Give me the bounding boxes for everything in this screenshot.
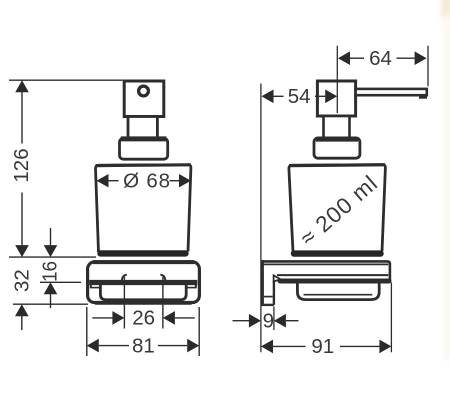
- glass bottom in holder side: [297, 284, 379, 300]
- svg-text:91: 91: [311, 335, 334, 358]
- svg-text:16: 16: [39, 261, 62, 282]
- bracket shelf side: [262, 261, 390, 280]
- wall plate side: [261, 260, 274, 305]
- extension lines right view: [261, 46, 428, 353]
- holder rounded body front: [88, 262, 200, 303]
- pump head hole: [139, 86, 149, 96]
- dimension 91: [261, 335, 391, 358]
- dimension 126: [10, 80, 33, 257]
- dimension 26: [92, 307, 195, 330]
- pump head box side: [317, 81, 355, 116]
- dimension 32: [10, 269, 33, 330]
- glass body front: [95, 165, 190, 252]
- extension lines left view: [9, 80, 199, 356]
- glass body bottom thick band side: [294, 250, 381, 256]
- bracket hook wedge: [274, 275, 281, 281]
- dimension Ø 68: [97, 170, 192, 193]
- pump neck side: [324, 116, 350, 138]
- capacity label ≈ 200 ml: [295, 170, 382, 251]
- pump head box front: [124, 81, 164, 117]
- bracket ring front thick line: [280, 279, 389, 284]
- dimension 64: [338, 47, 427, 70]
- svg-text:32: 32: [10, 269, 33, 292]
- holder opening front: [100, 285, 186, 300]
- svg-text:9: 9: [263, 309, 274, 332]
- svg-text:54: 54: [288, 85, 311, 108]
- svg-text:26: 26: [132, 307, 155, 330]
- bracket ring back thin line: [277, 274, 388, 276]
- dimension 54: [262, 85, 338, 108]
- hidden glass dashed arcs: [122, 275, 165, 285]
- pump spout side: [356, 89, 427, 97]
- svg-text:64: 64: [369, 47, 392, 70]
- svg-text:81: 81: [132, 334, 155, 357]
- pump collar front: [120, 138, 168, 159]
- pump neck front: [128, 117, 157, 140]
- dimension 81: [87, 334, 199, 357]
- dimension 9: [233, 309, 299, 332]
- glass body side: [289, 165, 386, 252]
- svg-text:Ø 68: Ø 68: [123, 170, 171, 193]
- svg-text:126: 126: [10, 148, 33, 182]
- dimension 16: [39, 228, 62, 308]
- glass body bottom thick band front: [101, 250, 186, 256]
- holder shelf front edge thick line: [89, 283, 197, 304]
- pump collar side: [314, 138, 360, 158]
